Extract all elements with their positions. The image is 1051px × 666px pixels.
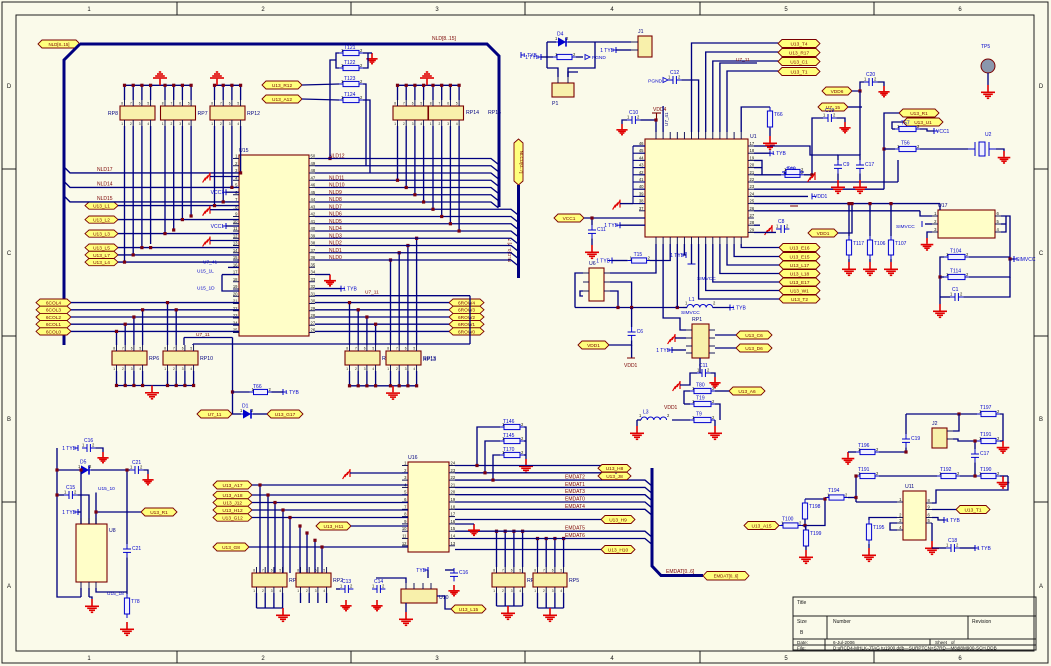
svg-text:SIMVCC: SIMVCC xyxy=(896,224,915,230)
svg-text:U15_10: U15_10 xyxy=(98,486,115,492)
wire left vert to U11 xyxy=(855,476,857,502)
wire u1 r4 T46 xyxy=(754,174,781,176)
resistor T194 xyxy=(825,495,848,500)
wire flag to U15 xyxy=(118,219,239,221)
connector P1 xyxy=(552,83,574,97)
svg-text:6: 6 xyxy=(405,347,407,351)
wire to U13_T2 xyxy=(699,244,779,299)
wire hgnd c xyxy=(210,240,239,242)
svg-text:U13_A15: U13_A15 xyxy=(751,523,771,529)
svg-text:C17: C17 xyxy=(865,162,874,168)
port U13_R17 xyxy=(778,49,820,57)
capacitor C10 xyxy=(627,116,640,124)
svg-text:7: 7 xyxy=(502,569,504,573)
wire T78 top xyxy=(126,592,128,594)
svg-text:8: 8 xyxy=(430,102,432,106)
svg-text:U13_H12: U13_H12 xyxy=(222,508,243,514)
svg-text:37: 37 xyxy=(639,206,644,211)
svg-text:U13_L3: U13_L3 xyxy=(93,232,110,238)
wire u7_15 xyxy=(848,106,862,108)
svg-text:RP1: RP1 xyxy=(692,317,702,323)
wire RP11 up xyxy=(349,303,351,345)
svg-text:U1: U1 xyxy=(750,134,757,140)
ground TP5 xyxy=(981,85,995,98)
wire to U13_W1 xyxy=(706,244,779,291)
wire RP5 down xyxy=(554,593,556,608)
svg-text:1 TYB: 1 TYB xyxy=(604,223,618,229)
svg-text:U13_C1: U13_C1 xyxy=(790,59,808,65)
svg-text:1: 1 xyxy=(211,122,213,126)
wire t107 up xyxy=(890,204,892,236)
wire RP11/13 down xyxy=(390,371,392,386)
wire u17 pin2 xyxy=(925,223,932,225)
wire t9 gnd xyxy=(714,420,716,426)
wire RP3 down xyxy=(496,593,498,606)
wire loop join xyxy=(1003,475,1008,477)
ground T117 xyxy=(842,262,856,275)
wire RP15 col xyxy=(449,126,451,224)
wire pin34 gnd xyxy=(315,274,330,276)
svg-text:U7_11: U7_11 xyxy=(736,57,750,63)
port U13_G17 xyxy=(267,410,303,418)
svg-text:24: 24 xyxy=(750,191,755,196)
svg-text:T196: T196 xyxy=(858,443,870,449)
wire rp1 c6 xyxy=(715,334,736,336)
wire u6 r3 xyxy=(610,291,618,308)
power 1 TYB pgnd-res xyxy=(537,54,541,60)
wire to U13_T4 xyxy=(692,43,779,132)
svg-text:VDD1: VDD1 xyxy=(814,194,828,200)
svg-text:VDD6: VDD6 xyxy=(831,89,844,95)
wire U10 wiring xyxy=(376,578,406,583)
port U13_A12 xyxy=(262,95,302,103)
svg-text:5: 5 xyxy=(519,569,521,573)
svg-text:D1: D1 xyxy=(242,404,249,410)
svg-text:8: 8 xyxy=(164,347,166,351)
svg-text:15: 15 xyxy=(451,526,456,531)
U1 pins xyxy=(639,145,645,147)
ground T195 xyxy=(862,548,876,561)
wire t117 gnd xyxy=(848,259,850,262)
ground C11b xyxy=(709,377,720,388)
svg-text:44: 44 xyxy=(639,155,644,160)
svg-text:2: 2 xyxy=(543,589,545,593)
svg-text:U13_A18: U13_A18 xyxy=(222,493,242,499)
svg-text:T107: T107 xyxy=(895,241,907,247)
chassis ground C8 xyxy=(765,225,772,235)
wire U16 r pin23 xyxy=(455,472,616,474)
power 1 TYB C16 xyxy=(74,445,78,451)
svg-text:T122: T122 xyxy=(344,60,356,66)
ground U16 pin16 xyxy=(468,524,480,535)
wire c11 gnd xyxy=(591,238,593,245)
port U7_15 xyxy=(818,103,848,111)
svg-text:7: 7 xyxy=(171,102,173,106)
svg-text:U13_H8: U13_H8 xyxy=(606,466,624,472)
svg-text:6: 6 xyxy=(139,102,141,106)
wire RP10 up xyxy=(175,310,177,345)
wire RP5 up xyxy=(554,539,556,568)
wire RP11/13 down xyxy=(416,371,418,386)
svg-text:6: 6 xyxy=(131,347,133,351)
wire to U13_L17 xyxy=(727,244,779,265)
ground above RP8/RP7 xyxy=(153,72,167,85)
svg-text:Size: Size xyxy=(797,619,807,625)
svg-text:4: 4 xyxy=(413,367,415,371)
svg-text:VDD4: VDD4 xyxy=(653,107,667,113)
svg-text:13: 13 xyxy=(451,541,456,546)
resistor T106 xyxy=(867,236,872,259)
wire T195 top to pin2 xyxy=(869,518,897,521)
wire RP9/10 down xyxy=(142,371,144,386)
wire flag to U15 xyxy=(118,247,239,249)
wire U11 pin8 loop xyxy=(932,476,1008,503)
wire rp1 d6 xyxy=(715,347,736,349)
resistor T104 xyxy=(944,254,969,259)
svg-text:T106: T106 xyxy=(874,241,886,247)
wire EMDAT0 xyxy=(455,502,652,508)
resistor pack RP6 xyxy=(112,351,147,365)
wire RP4 down xyxy=(264,593,266,608)
port U13_C6 xyxy=(736,331,772,339)
ground T106 xyxy=(863,262,877,275)
capacitor C17b xyxy=(971,449,979,462)
svg-text:4: 4 xyxy=(560,589,562,593)
svg-text:T192: T192 xyxy=(940,467,952,473)
wire RP11 up xyxy=(366,317,368,345)
port 6ROW0 xyxy=(449,328,484,336)
svg-text:6-Jul-2006: 6-Jul-2006 xyxy=(833,640,855,645)
wire l1 left xyxy=(683,307,687,309)
wire t117 up xyxy=(848,204,850,236)
svg-text:3: 3 xyxy=(511,589,513,593)
power VCC1 pin10 xyxy=(222,223,226,229)
svg-text:C1: C1 xyxy=(952,287,959,293)
svg-text:21: 21 xyxy=(750,170,755,175)
svg-text:NLD[0..7] 7: NLD[0..7] 7 xyxy=(507,238,512,262)
svg-text:1 TYB: 1 TYB xyxy=(732,305,746,311)
wire t106 up xyxy=(869,204,871,236)
wire RP14 col xyxy=(414,126,416,195)
wire NLDx to bus xyxy=(315,217,519,223)
resistor T80 xyxy=(690,388,715,393)
resistor pack RP1 xyxy=(692,324,709,358)
svg-text:T15: T15 xyxy=(634,252,643,258)
svg-text:RP15: RP15 xyxy=(488,110,501,116)
wire U10 gnd xyxy=(405,603,407,612)
svg-text:RP5: RP5 xyxy=(569,578,579,584)
wire drop to RP2 xyxy=(299,526,301,573)
capacitor C13 xyxy=(340,585,353,593)
svg-text:Title: Title xyxy=(797,600,806,606)
capacitor C16b xyxy=(450,568,458,581)
resistor T190 xyxy=(977,473,1000,478)
svg-text:1 TYB: 1 TYB xyxy=(946,518,960,524)
wire U11 pin9 to flag xyxy=(932,509,956,511)
wire RP9/10 down xyxy=(175,371,177,386)
capacitor C6 xyxy=(628,327,636,340)
svg-text:U13_D6: U13_D6 xyxy=(745,346,763,352)
ground U11 xyxy=(925,541,939,554)
wire t9 left xyxy=(672,419,690,421)
wire RP4 down xyxy=(256,593,258,608)
wire H9 row xyxy=(455,519,601,521)
wire U16 r pin24 xyxy=(455,465,608,467)
wire u6 l2 xyxy=(580,291,583,296)
port NLCD[0..7] vertical xyxy=(514,139,524,185)
wire c6 top xyxy=(631,308,633,328)
svg-text:45: 45 xyxy=(311,190,316,195)
wire RP14 col xyxy=(423,126,425,202)
svg-text:37: 37 xyxy=(311,248,316,253)
wire U13_L15 xyxy=(437,596,451,609)
port U13_H8 xyxy=(598,465,631,473)
svg-text:T124: T124 xyxy=(344,92,356,98)
resistor T57 xyxy=(895,126,920,131)
wire t56 to crystal xyxy=(920,148,968,150)
wire loop right xyxy=(576,56,583,58)
wire T195 gnd xyxy=(868,544,870,548)
svg-text:NLD15: NLD15 xyxy=(97,196,113,202)
wire u1 col4 down to L1 row xyxy=(676,244,678,308)
port U13_U1 xyxy=(903,118,943,126)
port U13_A15 xyxy=(744,522,779,530)
wire simvcc join xyxy=(1010,257,1014,259)
svg-text:6: 6 xyxy=(229,102,231,106)
svg-text:6COL2: 6COL2 xyxy=(46,315,62,321)
svg-text:C12: C12 xyxy=(670,70,679,76)
svg-text:48: 48 xyxy=(311,168,316,173)
svg-text:T191: T191 xyxy=(858,467,870,473)
power VDD1 blue xyxy=(812,193,816,199)
port 6COL4 xyxy=(36,299,71,307)
svg-text:34: 34 xyxy=(311,270,316,275)
wire RP13 up long xyxy=(407,246,409,346)
chassis ground pin3 xyxy=(203,173,210,183)
wire RP3 tie xyxy=(497,605,523,607)
svg-text:T191: T191 xyxy=(980,432,992,438)
ground C16b xyxy=(448,585,459,596)
bus EMDAT[0..6] xyxy=(652,468,703,576)
IC U8 xyxy=(76,524,107,582)
wire RP9/10 down xyxy=(124,371,126,386)
ground below RP11/RP13 xyxy=(386,386,400,399)
svg-text:5: 5 xyxy=(456,102,458,106)
svg-text:40: 40 xyxy=(639,184,644,189)
svg-text:26: 26 xyxy=(750,206,755,211)
port U13_H11 xyxy=(316,522,351,530)
svg-text:2: 2 xyxy=(173,367,175,371)
port U13_G12 xyxy=(213,514,252,522)
chassis ground T461 xyxy=(808,172,815,182)
svg-text:U13_T1: U13_T1 xyxy=(790,69,807,75)
svg-text:RP8: RP8 xyxy=(108,111,118,117)
resistor pack RP11 xyxy=(345,351,380,365)
IC U17 xyxy=(938,210,995,238)
svg-text:7: 7 xyxy=(396,347,398,351)
wire NLD1x to bus xyxy=(315,166,499,172)
svg-text:T146: T146 xyxy=(503,419,515,425)
wire c8 row a xyxy=(754,224,760,226)
wire tyb drop xyxy=(427,570,429,578)
wire drop to RP2 xyxy=(306,533,308,573)
svg-text:2: 2 xyxy=(306,589,308,593)
wire T146 right xyxy=(524,427,526,459)
svg-text:8: 8 xyxy=(387,347,389,351)
wire t80 flag xyxy=(715,390,729,392)
wire VCC1 row xyxy=(584,217,645,219)
svg-text:1: 1 xyxy=(162,122,164,126)
svg-text:11: 11 xyxy=(402,534,407,539)
svg-text:6COL1: 6COL1 xyxy=(46,322,62,328)
bus NLD[8..15] top run xyxy=(80,44,499,207)
svg-text:T145: T145 xyxy=(503,433,515,439)
svg-text:RP13: RP13 xyxy=(423,357,436,363)
wire RP14/15 pullup xyxy=(423,85,425,100)
svg-text:19: 19 xyxy=(233,284,238,289)
wire T199 gnd xyxy=(805,546,807,550)
IC U11 xyxy=(903,491,926,540)
wire U13_A18 row xyxy=(252,494,408,496)
wire RP7 col xyxy=(181,126,183,220)
resistor T56 xyxy=(895,146,920,151)
port 6COL0 xyxy=(36,328,71,336)
svg-text:14: 14 xyxy=(233,248,238,253)
svg-text:2: 2 xyxy=(502,589,504,593)
wire NLDx to bus xyxy=(315,260,519,266)
U15 pins xyxy=(233,158,239,160)
svg-text:T190: T190 xyxy=(980,467,992,473)
wire NLD15 xyxy=(64,196,239,202)
connector J1 xyxy=(638,36,652,57)
wire RP9 up xyxy=(116,331,118,345)
svg-text:2: 2 xyxy=(171,122,173,126)
svg-text:U15_1L: U15_1L xyxy=(197,269,214,275)
resistor T117 xyxy=(846,236,851,259)
svg-text:U13_T2: U13_T2 xyxy=(791,297,808,303)
svg-text:Date:: Date: xyxy=(797,640,808,645)
svg-text:U7_41: U7_41 xyxy=(203,260,217,266)
wire RP15 col xyxy=(441,126,443,217)
wire RP3 up xyxy=(504,531,506,567)
wire j1 pin1 xyxy=(595,41,631,43)
svg-text:20: 20 xyxy=(750,163,755,168)
wire to U13_E15 xyxy=(734,244,779,257)
svg-text:6COL0: 6COL0 xyxy=(46,329,62,335)
svg-text:Revision: Revision xyxy=(972,619,991,625)
svg-text:C8: C8 xyxy=(778,219,785,225)
wire C21b down xyxy=(126,557,128,592)
svg-text:D4: D4 xyxy=(557,32,564,38)
wire G8 row xyxy=(249,546,408,548)
wire EMDAT3 xyxy=(455,495,652,501)
wire NLDx to bus xyxy=(315,246,519,252)
wire RP14/15 pullup xyxy=(441,85,443,100)
svg-text:1: 1 xyxy=(121,122,123,126)
wire flag to U15 xyxy=(118,261,239,263)
wire T192 to T190 xyxy=(960,475,977,477)
wire VDD1 row xyxy=(754,195,808,197)
svg-text:D5: D5 xyxy=(80,460,87,466)
svg-text:U6: U6 xyxy=(589,261,596,267)
svg-text:5: 5 xyxy=(372,347,374,351)
wire U15_18 row xyxy=(96,588,127,592)
wire RP3 down xyxy=(504,593,506,606)
wire p1 pin2 xyxy=(568,72,578,77)
wire U7_11 net xyxy=(720,63,757,132)
svg-text:4: 4 xyxy=(519,589,521,593)
wire RP12 pullup xyxy=(214,85,216,100)
svg-text:27: 27 xyxy=(750,213,755,218)
port U13_L5 xyxy=(85,244,118,252)
port U13_L18 xyxy=(779,270,820,278)
wire rp1 hgnd xyxy=(675,337,686,339)
wire u1 r3 xyxy=(754,160,762,175)
wire RP4 down xyxy=(282,593,284,608)
chassis ground RP1 xyxy=(668,334,675,344)
svg-text:6ROW3: 6ROW3 xyxy=(458,308,475,314)
svg-text:U15_1D: U15_1D xyxy=(197,286,215,292)
wire t57 vcc xyxy=(920,129,934,131)
wire t19 right xyxy=(715,404,720,420)
svg-text:6: 6 xyxy=(412,102,414,106)
svg-text:TYB: TYB xyxy=(416,568,426,574)
capacitor C18 xyxy=(946,544,959,552)
svg-text:6: 6 xyxy=(552,569,554,573)
power TYB U16 xyxy=(424,567,428,573)
svg-text:8: 8 xyxy=(493,569,495,573)
wire U7_11 pin31 row xyxy=(315,295,470,297)
svg-text:46: 46 xyxy=(639,141,644,146)
resistor T196 xyxy=(856,449,879,454)
wire pin17-20 join xyxy=(222,275,239,291)
svg-text:Number: Number xyxy=(833,619,851,625)
svg-text:7: 7 xyxy=(355,347,357,351)
port U13_E17 xyxy=(779,278,820,286)
svg-text:C15: C15 xyxy=(66,485,75,491)
diode D1 xyxy=(241,409,253,418)
wire C15 left xyxy=(57,494,64,496)
resistor pack RP2 xyxy=(296,573,331,587)
IC U15 xyxy=(239,155,309,336)
svg-text:39: 39 xyxy=(311,233,316,238)
resistor T100 xyxy=(779,523,802,528)
wire t107 gnd xyxy=(890,259,892,262)
svg-text:20: 20 xyxy=(233,291,238,296)
svg-text:EMDAT2: EMDAT2 xyxy=(565,475,585,481)
wire U8 gnd stub xyxy=(88,588,90,597)
svg-text:T56: T56 xyxy=(901,141,910,147)
wire RP9 up xyxy=(142,310,144,345)
power 1 TYB L1 xyxy=(730,305,734,311)
wire RP3 up xyxy=(496,531,498,567)
port U13_E15 xyxy=(779,253,820,261)
wire u1 r1 xyxy=(754,145,770,147)
svg-text:4: 4 xyxy=(237,122,239,126)
svg-text:U13_L2: U13_L2 xyxy=(93,218,110,224)
svg-text:7: 7 xyxy=(130,102,132,106)
wire c20 gnd xyxy=(877,82,884,86)
resistor T191b xyxy=(856,473,879,478)
wire RP8 col xyxy=(141,126,143,248)
svg-text:U13_T1: U13_T1 xyxy=(964,507,981,513)
wire EMDAT6 xyxy=(455,539,652,545)
wire RP15 col xyxy=(432,126,434,209)
wire RP5 down xyxy=(545,593,547,608)
svg-text:File:: File: xyxy=(797,646,806,651)
svg-text:7: 7 xyxy=(262,569,264,573)
svg-text:VCC1: VCC1 xyxy=(563,216,576,222)
